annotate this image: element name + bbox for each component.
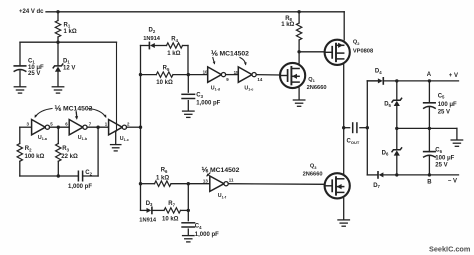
svg-text:Q3: Q3 [310, 164, 317, 170]
resistor R5 [156, 65, 173, 85]
wire C2 to U1-c input [83, 127, 99, 176]
junction C6 top [428, 127, 431, 130]
wire Q2 source to C_OUT node [343, 65, 345, 174]
transistor Q1 2N6660 [280, 63, 327, 91]
diode D7 [373, 172, 458, 189]
capacitor C6 [424, 128, 455, 175]
svg-text:A: A [427, 72, 432, 78]
svg-text:SeekIC.com: SeekIC.com [429, 244, 471, 253]
resistor R4 [167, 37, 189, 57]
label -V [448, 179, 457, 185]
wire +24V top rail [46, 11, 344, 13]
wire common rail [397, 128, 457, 139]
junction at R5 row [139, 73, 142, 76]
label 1/6 MC14502 for U1-a U1-b U1-c [35, 104, 107, 120]
svg-text:+ V: + V [449, 73, 458, 79]
inverter U1-d [203, 67, 230, 92]
ground at output common [451, 140, 463, 146]
wire output node vertical [366, 81, 368, 175]
svg-text:1 kΩ: 1 kΩ [64, 29, 77, 35]
svg-text:2N6660: 2N6660 [303, 172, 323, 178]
wire U1-d out to U1-e in [226, 74, 239, 76]
svg-text:R5: R5 [163, 65, 170, 71]
resistor R3 [56, 127, 78, 176]
wire -V rail [367, 174, 378, 176]
svg-text:Q1: Q1 [308, 77, 315, 83]
inverter U1-e [234, 67, 263, 92]
junction C_OUT left [342, 126, 345, 129]
wire R5 row [141, 74, 157, 76]
capacitor C2 [68, 170, 93, 190]
svg-text:13: 13 [203, 179, 208, 184]
svg-text:2N6660: 2N6660 [307, 85, 327, 91]
svg-text:100 kΩ: 100 kΩ [25, 154, 45, 160]
svg-text:10 kΩ: 10 kΩ [156, 80, 173, 86]
junction R8 top [297, 10, 300, 13]
zener diode D5 [384, 81, 401, 128]
svg-text:1 kΩ: 1 kΩ [281, 22, 294, 28]
wire U1-a out to U1-b in [50, 126, 70, 128]
junction D5 top [395, 79, 398, 82]
resistor R6 [155, 168, 210, 187]
svg-text:22 kΩ: 22 kΩ [61, 154, 78, 160]
svg-text:R4: R4 [171, 37, 178, 43]
ground under C1 [14, 87, 26, 93]
transistor Q3 2N6660 [303, 164, 350, 199]
junction C_OUT right [366, 126, 369, 129]
ground under Q3 [338, 220, 350, 226]
svg-text:R3: R3 [62, 146, 69, 152]
junction at C3 top [187, 73, 190, 76]
svg-text:12 V: 12 V [63, 66, 75, 72]
svg-text:1 kΩ: 1 kΩ [167, 51, 180, 57]
capacitor C_OUT [344, 123, 368, 145]
node +24 V dc supply label [19, 9, 44, 15]
label +V [449, 73, 458, 79]
inverter U1-f [203, 176, 234, 199]
svg-text:D6: D6 [382, 150, 389, 156]
ground under C3 [183, 111, 195, 117]
watermark SeekIC.com [429, 244, 471, 253]
label 1/6 MC14502 for U1-f [202, 166, 240, 177]
svg-text:− V: − V [448, 179, 457, 185]
resistor R2 [17, 127, 44, 176]
svg-text:15: 15 [234, 70, 239, 75]
svg-text:10 μF: 10 μF [28, 65, 44, 71]
svg-text:1 kΩ: 1 kΩ [156, 175, 169, 181]
svg-text:1,000 pF: 1,000 pF [68, 184, 92, 190]
capacitor C5 [424, 81, 457, 128]
svg-text:1N914: 1N914 [143, 36, 161, 42]
zener diode D1 12V [53, 42, 75, 86]
svg-text:⅙ MC14502: ⅙ MC14502 [211, 49, 249, 57]
wire +V rail [367, 80, 378, 82]
svg-text:R6: R6 [161, 168, 168, 174]
svg-text:100 μF: 100 μF [438, 102, 457, 108]
ground under Q1 [293, 100, 305, 106]
wire 12V rail [20, 41, 117, 43]
diode D3 1N914 [139, 201, 164, 224]
wire U1-c to ground [115, 132, 117, 145]
svg-text:1,000 pF: 1,000 pF [195, 232, 219, 238]
svg-text:C5: C5 [438, 93, 445, 99]
ground under C4 [183, 236, 195, 242]
junction at R1 top [56, 10, 59, 13]
wire +24V rail down to Q2 drain [343, 12, 345, 40]
svg-text:COUT: COUT [347, 139, 360, 145]
svg-text:C6: C6 [435, 148, 442, 154]
wire VDD to U1-c [116, 42, 118, 131]
svg-text:⅙ MC14502: ⅙ MC14502 [202, 166, 240, 174]
node B [427, 173, 432, 185]
ground under U1-c [111, 145, 121, 151]
svg-text:10: 10 [203, 70, 208, 75]
svg-text:D3: D3 [146, 201, 153, 207]
svg-text:1N914: 1N914 [139, 217, 157, 223]
svg-text:C3: C3 [196, 93, 203, 99]
svg-text:10 kΩ: 10 kΩ [162, 217, 179, 223]
diode D2 1N914 [141, 28, 167, 49]
resistor R7 [162, 201, 188, 223]
svg-text:VP0808: VP0808 [353, 49, 373, 55]
resistor R1 [55, 12, 77, 42]
svg-text:R2: R2 [25, 146, 32, 152]
svg-text:C1: C1 [28, 58, 35, 64]
svg-text:D2: D2 [149, 28, 156, 34]
wire R5 to U1-d [173, 74, 208, 76]
junction at R6 row [139, 182, 142, 185]
node A [427, 72, 432, 82]
junction at C4 top [187, 182, 190, 185]
svg-text:Q2: Q2 [353, 40, 360, 46]
transistor Q2 VP0808 [325, 40, 374, 65]
wire U1-b out to U1-c in [87, 126, 109, 128]
capacitor C4 [182, 184, 219, 239]
wire R4 down to R5 row [187, 46, 189, 75]
wire oscillator bottom rail [20, 175, 79, 177]
wire R6 row [141, 183, 155, 185]
label 1/6 MC14502 for U1-d U1-e [211, 49, 249, 65]
inverter U1-a [20, 120, 54, 142]
wire Q1 drain to Q2 gate [299, 51, 325, 53]
svg-text:14: 14 [257, 77, 262, 82]
svg-text:B: B [427, 180, 432, 186]
svg-text:25 V: 25 V [28, 71, 40, 77]
svg-text:11: 11 [229, 177, 234, 182]
zener diode D6 [382, 128, 402, 175]
svg-text:R7: R7 [168, 201, 175, 207]
junction U1-c out [139, 126, 142, 129]
svg-text:D7: D7 [373, 183, 380, 189]
svg-text:25 V: 25 V [438, 109, 450, 115]
junction D6 top [395, 127, 398, 130]
wire Q3 source to ground [343, 198, 345, 219]
svg-text:C4: C4 [195, 223, 202, 229]
svg-text:1,000 pF: 1,000 pF [196, 101, 220, 107]
junction D6 bottom [395, 173, 398, 176]
junction at D1 top [56, 41, 59, 44]
junction R8 bottom [297, 50, 300, 53]
svg-text:R1: R1 [64, 22, 71, 28]
resistor R8 [281, 12, 302, 52]
inverter U1-c [105, 120, 130, 143]
svg-text:⅙ MC14502: ⅙ MC14502 [55, 104, 93, 112]
svg-text:D5: D5 [384, 102, 391, 108]
junction at R3 bottom [57, 174, 60, 177]
wire Q1 drain up [298, 52, 300, 100]
junction at C2 feedback [96, 126, 99, 129]
wire U1-e out to Q1 gate [256, 74, 280, 76]
capacitor C3 [182, 75, 221, 111]
wire U1-c out horizontal [127, 126, 141, 128]
capacitor C1 [14, 42, 44, 86]
ground under D1 [52, 87, 64, 93]
junction at R3 top [57, 126, 60, 129]
inverter U1-b [65, 120, 92, 142]
svg-text:D4: D4 [375, 68, 382, 74]
wire U1-c output vertical [140, 46, 142, 211]
svg-text:+24 V dc: +24 V dc [19, 9, 44, 15]
wire U1-f out to Q3 gate [228, 183, 325, 186]
junction at R7 right [187, 209, 190, 212]
diode D4 [367, 68, 458, 84]
svg-text:100 μF: 100 μF [435, 155, 454, 161]
svg-text:D1: D1 [63, 58, 70, 64]
svg-text:25 V: 25 V [435, 162, 447, 168]
